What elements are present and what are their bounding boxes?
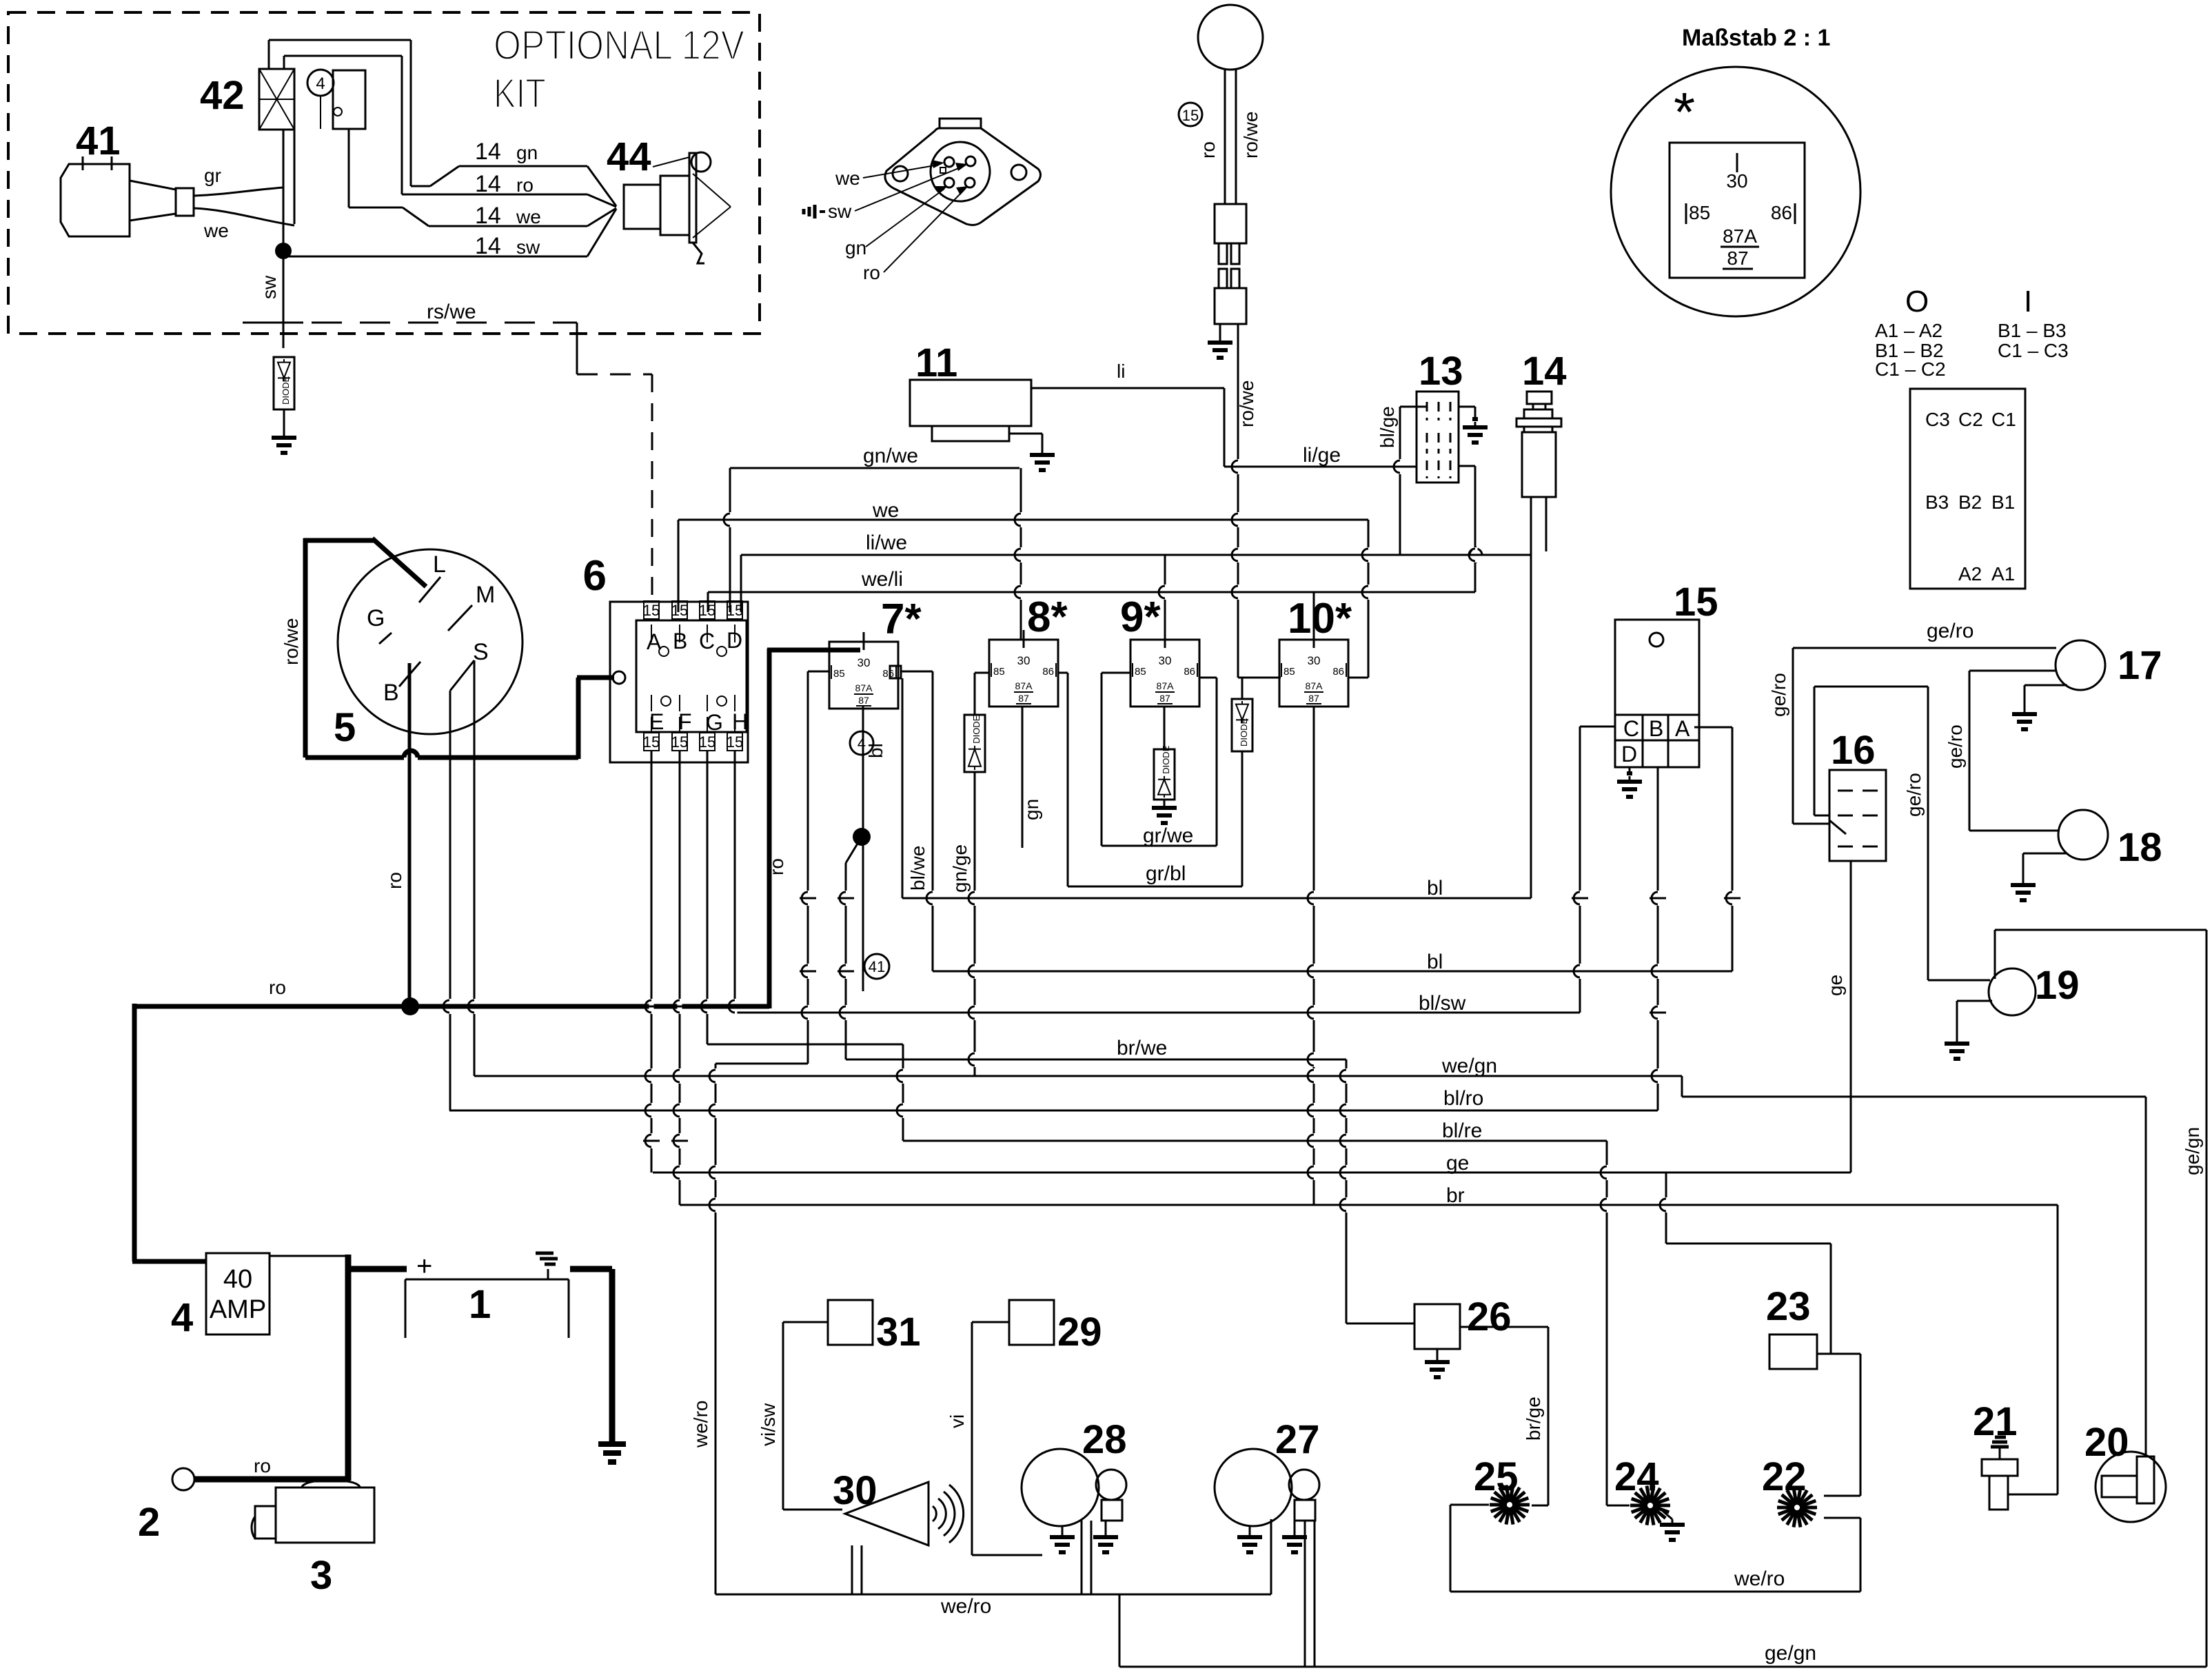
component 12 lever [1198, 5, 1263, 70]
ground below diode [283, 431, 285, 438]
svg-text:15: 15 [643, 602, 660, 619]
wires from horn down [851, 1545, 853, 1594]
svg-text:17: 17 [2118, 643, 2162, 688]
svg-text:22: 22 [1762, 1454, 1807, 1499]
circle 41 marker [864, 954, 889, 979]
pin 15 bottom [644, 733, 659, 751]
svg-text:br/ge: br/ge [1523, 1397, 1544, 1441]
svg-text:30: 30 [1159, 654, 1172, 667]
wire gr from 41 [194, 187, 283, 196]
wire bl/ro up to 15 B [1657, 767, 1659, 1110]
svg-text:85: 85 [1689, 202, 1710, 223]
svg-text:we: we [835, 167, 860, 189]
svg-text:86: 86 [1771, 202, 1792, 223]
svg-text:li/ge: li/ge [1303, 444, 1341, 467]
flasher unit 15 box [1615, 620, 1699, 767]
svg-text:sw: sw [258, 275, 280, 299]
headlight 27 [1215, 1449, 1292, 1526]
fuse 4 40 AMP [206, 1253, 270, 1334]
svg-text:C: C [699, 629, 715, 653]
svg-text:DIODE: DIODE [971, 715, 982, 744]
svg-text:ro: ro [1197, 141, 1219, 159]
svg-text:87A: 87A [1157, 680, 1175, 691]
svg-text:87: 87 [1727, 247, 1748, 269]
svg-text:B2: B2 [1958, 491, 1982, 513]
svg-text:5: 5 [334, 705, 356, 750]
svg-text:bl: bl [1427, 877, 1443, 900]
relay 9 pin87 diode to ground [1164, 707, 1166, 749]
svg-text:A1: A1 [1991, 563, 2015, 585]
svg-text:bl/ge: bl/ge [1377, 406, 1398, 448]
svg-text:42: 42 [200, 73, 245, 118]
lamp symbol 25 [1512, 1503, 1530, 1507]
diode right of relay 9 [1232, 699, 1252, 751]
wires of 27 down [1270, 1519, 1272, 1594]
svg-text:86: 86 [1332, 666, 1344, 678]
dashed border of OPTIONAL 12V KIT box [8, 12, 760, 334]
relay 7 pin86 wire bl/we [901, 671, 933, 673]
svg-text:25: 25 [1474, 1454, 1519, 1499]
svg-text:ro: ro [254, 1455, 271, 1476]
lamp symbol 22 [1800, 1506, 1817, 1510]
svg-text:br/we: br/we [1117, 1037, 1167, 1059]
svg-text:15: 15 [643, 733, 660, 751]
svg-text:85: 85 [1135, 666, 1146, 678]
svg-text:L: L [433, 551, 446, 578]
wire 22 to we/ro [1824, 1517, 1860, 1519]
svg-text:10*: 10* [1288, 595, 1352, 642]
thick wire fuse to battery plus [270, 1255, 348, 1257]
svg-text:DIODE: DIODE [1239, 718, 1249, 747]
pin 15 top [672, 601, 687, 619]
svg-text:ge/ro: ge/ro [1768, 673, 1789, 717]
svg-text:vi/sw: vi/sw [758, 1403, 779, 1446]
wire box 13 upper-left down to li/we [1399, 407, 1401, 556]
wire li [1031, 387, 1224, 389]
headlight 28 [1022, 1449, 1099, 1526]
svg-text:7*: 7* [881, 596, 922, 643]
pin 15 bottom [672, 733, 687, 751]
svg-text:ge/ro: ge/ro [1903, 773, 1925, 817]
svg-text:B: B [383, 680, 399, 706]
wire we/gn extension down to 20 [2145, 1097, 2147, 1456]
svg-text:86: 86 [1042, 666, 1054, 678]
component 5 ignition switch circle [338, 549, 522, 734]
svg-text:26: 26 [1467, 1295, 1512, 1339]
wire S of 5 down [474, 660, 476, 1076]
svg-text:87A: 87A [1723, 225, 1757, 247]
svg-text:28: 28 [1082, 1417, 1127, 1462]
svg-text:15: 15 [671, 602, 688, 619]
contacts of 5 [419, 577, 440, 602]
svg-text:30: 30 [833, 1468, 877, 1513]
ground of 15 [1629, 767, 1631, 773]
relay 8 pin86 wire gr/bl [1058, 672, 1068, 674]
connector 13 [1417, 392, 1459, 483]
connector block 6 inner [636, 620, 747, 732]
svg-text:24: 24 [1614, 1454, 1659, 1499]
svg-text:KIT: KIT [494, 70, 546, 116]
pin map box [1910, 389, 2025, 589]
svg-text:D: D [727, 628, 742, 653]
svg-text:ge: ge [1825, 975, 1846, 996]
svg-text:87: 87 [858, 695, 869, 706]
svg-text:+: + [416, 1251, 432, 1281]
svg-text:A: A [1675, 716, 1690, 741]
pin 15 bottom [727, 733, 742, 751]
svg-text:15: 15 [671, 733, 688, 751]
svg-text:gn/we: gn/we [863, 445, 918, 467]
connector block 6 outer [610, 602, 748, 762]
svg-text:14: 14 [475, 139, 501, 165]
svg-text:gn: gn [516, 142, 538, 163]
wire from 42 top to harness ro [283, 56, 285, 69]
svg-text:30: 30 [1017, 654, 1031, 667]
wire vi/sw from 31 to horn [783, 1321, 828, 1323]
svg-text:B: B [673, 629, 687, 653]
svg-text:85: 85 [993, 666, 1005, 678]
svg-text:4: 4 [171, 1295, 193, 1340]
svg-text:G: G [706, 710, 723, 735]
svg-text:23: 23 [1766, 1284, 1811, 1329]
svg-text:15: 15 [699, 733, 716, 751]
svg-text:87A: 87A [855, 682, 873, 693]
svg-text:21: 21 [1973, 1399, 2018, 1444]
svg-text:bl: bl [1427, 951, 1443, 973]
svg-text:M: M [476, 582, 495, 608]
svg-text:gr: gr [204, 165, 221, 186]
relay 9 [1130, 640, 1199, 707]
wire connector6 pin E down to ge [651, 751, 653, 1172]
wire from 42 top to harness gn [268, 40, 270, 69]
wire 42 right to 43 area [294, 130, 296, 224]
svg-text:we/gn: we/gn [1441, 1055, 1497, 1077]
svg-text:ro: ro [384, 872, 405, 889]
thick wire into 5 [303, 538, 308, 758]
svg-text:bl: bl [865, 743, 886, 758]
ground of 11 [1009, 433, 1042, 435]
ground of 17 [2025, 684, 2067, 687]
svg-text:ge/gn: ge/gn [1765, 1642, 1816, 1665]
wire 25 to we/ro [1450, 1504, 1489, 1506]
diode below optional kit [274, 357, 294, 409]
svg-text:B3: B3 [1925, 491, 1949, 513]
svg-text:87: 87 [1308, 693, 1319, 704]
lamp 18 [2058, 810, 2108, 860]
relay 8 pin85 wire with diode [975, 672, 989, 674]
relay 7 pin86 square [890, 666, 901, 678]
thick wire ro battery to relay 7 [134, 1004, 769, 1009]
starter motor 3 [276, 1488, 374, 1543]
wire we from 41 [194, 208, 294, 225]
thick wire to fuse [132, 1259, 206, 1264]
svg-text:gr/we: gr/we [1143, 824, 1193, 847]
component 11 control unit [910, 380, 1031, 426]
pin 15 bottom [700, 733, 715, 751]
wires of 28 down [1081, 1519, 1083, 1594]
svg-text:4: 4 [316, 74, 325, 93]
junction dot ro [401, 997, 419, 1015]
ground of 19 [1957, 1000, 1992, 1002]
svg-text:gn: gn [1021, 799, 1042, 820]
wire M of 5 down [449, 691, 451, 1110]
wire bl second up to 15 A [1694, 727, 1732, 729]
svg-text:C1: C1 [1991, 409, 2016, 430]
svg-text:we: we [516, 206, 541, 227]
svg-text:A2: A2 [1958, 563, 1982, 585]
grounds of 27 [1249, 1526, 1251, 1533]
svg-text:29: 29 [1057, 1310, 1102, 1354]
path ge branch to 23 and 22 [1665, 1172, 1667, 1243]
svg-text:87: 87 [1159, 693, 1170, 704]
wire bl/re to 24 [1606, 1141, 1608, 1505]
bulb of 27 [1289, 1470, 1319, 1500]
wire br/ge 26 to 25 [1460, 1326, 1548, 1328]
svg-text:DIODE: DIODE [1161, 745, 1171, 774]
pin 15 top [644, 601, 659, 619]
relay 7 pin86 lower wire to bl [902, 678, 904, 898]
ground of 13 [1459, 406, 1475, 408]
dashed vertical rs/we to connector 6 pin A [651, 374, 653, 603]
svg-text:30: 30 [1726, 170, 1747, 192]
svg-text:B1: B1 [1991, 491, 2015, 513]
wire connector6 pin H down to bl/sw [734, 751, 736, 1013]
svg-text:15: 15 [727, 733, 743, 751]
svg-text:ro/we: ro/we [1236, 380, 1257, 427]
relay 10 [1279, 640, 1348, 707]
svg-text:sw: sw [828, 201, 852, 222]
svg-text:B1 – B3: B1 – B3 [1998, 320, 2067, 341]
svg-text:9*: 9* [1120, 593, 1161, 641]
thick wire battery minus to ground [570, 1266, 612, 1272]
svg-text:19: 19 [2035, 963, 2080, 1008]
svg-text:E: E [649, 709, 664, 734]
svg-text:3: 3 [310, 1553, 332, 1598]
vertical sw wire below 42 [283, 130, 285, 348]
component 14 sensor [1527, 392, 1552, 404]
pin stubs [679, 625, 680, 642]
connector pair of 12 [1215, 204, 1246, 243]
svg-text:bl/re: bl/re [1442, 1119, 1482, 1142]
svg-text:20: 20 [2084, 1420, 2129, 1465]
component 26 box [1414, 1304, 1460, 1349]
relay 10 pin30 wire [1313, 592, 1315, 640]
svg-text:C1 – C2: C1 – C2 [1875, 358, 1946, 380]
wire from 14 down to bus bl [1530, 551, 1532, 898]
svg-text:ge/ro: ge/ro [1927, 620, 1973, 642]
wire connector6 pin G down to bl/re [707, 751, 709, 1044]
svg-text:15: 15 [1674, 580, 1718, 625]
pin stubs [707, 625, 708, 642]
ground of 24 [1663, 1511, 1672, 1519]
svg-text:gr/bl: gr/bl [1146, 862, 1186, 885]
svg-text:we/ro: we/ro [690, 1401, 711, 1448]
wire ge/ro from 16 to 19 [1814, 815, 1829, 817]
wire ro/we down from 12 [1237, 324, 1239, 678]
svg-text:ro: ro [269, 977, 286, 998]
svg-text:we/ro: we/ro [1734, 1567, 1785, 1590]
wire br/we to box 26 [1346, 1059, 1348, 1323]
svg-text:41: 41 [76, 119, 121, 163]
wire ge from 16 down [1850, 861, 1852, 1172]
svg-text:F: F [678, 709, 692, 734]
connector 2 [172, 1468, 194, 1490]
svg-text:87A: 87A [1015, 680, 1033, 691]
wire 17 to 18 ge/ro [1969, 670, 2056, 672]
relay 7 pin87 wire bl [862, 707, 864, 991]
connector plate with 4 pins [885, 128, 1041, 225]
svg-text:ge/ro: ge/ro [1945, 724, 1966, 769]
component 44 beacon lamp [624, 185, 660, 229]
svg-text:rs/we: rs/we [427, 301, 476, 323]
wire bl/sw up to 15 C [1579, 727, 1581, 1013]
svg-text:OPTIONAL 12V: OPTIONAL 12V [494, 22, 744, 68]
svg-text:li: li [1117, 361, 1125, 382]
svg-text:ro: ro [516, 174, 534, 196]
svg-text:11: 11 [915, 341, 957, 385]
relay 7 pin85 wire [808, 671, 829, 673]
svg-text:*: * [1674, 81, 1695, 143]
svg-text:C3: C3 [1925, 409, 1950, 430]
svg-text:30: 30 [1308, 654, 1321, 667]
component 31 switch box [828, 1300, 873, 1345]
lamp 17 [2056, 640, 2105, 690]
svg-text:15: 15 [1182, 107, 1199, 124]
component 41 ignition unit [61, 164, 130, 236]
svg-text:ro/we: ro/we [281, 618, 302, 665]
junction dot on bl wire [853, 828, 871, 846]
component 23 box [1769, 1334, 1817, 1369]
svg-text:87A: 87A [1306, 680, 1323, 691]
relay 9 pin86 wire [1199, 677, 1217, 679]
connector plate tab [940, 119, 981, 128]
svg-text:ge: ge [1446, 1152, 1469, 1175]
gauge 20 [2096, 1452, 2166, 1522]
svg-text:40: 40 [223, 1265, 252, 1294]
svg-text:vi: vi [946, 1414, 968, 1428]
component 43 relay box [333, 70, 365, 129]
svg-text:18: 18 [2118, 825, 2162, 870]
svg-text:1: 1 [469, 1282, 491, 1327]
junction dot sw [275, 243, 292, 259]
svg-text:bl/we: bl/we [907, 846, 929, 891]
component 29 switch box [1009, 1300, 1054, 1345]
wire connector6 pin F down to br [679, 751, 681, 1205]
svg-text:2: 2 [138, 1500, 160, 1545]
wire we down to relay 10 pin 86 [1368, 520, 1370, 678]
svg-text:6: 6 [583, 552, 607, 600]
wire we/li up to connector 13 [1474, 466, 1477, 592]
svg-text:C2: C2 [1958, 409, 1983, 430]
ground of 26 [1437, 1349, 1439, 1357]
wire B of 5 down ro [408, 663, 412, 1006]
svg-text:gn/ge: gn/ge [949, 844, 971, 893]
svg-text:ro/we: ro/we [1240, 112, 1261, 159]
svg-text:14: 14 [475, 171, 501, 197]
svg-text:14: 14 [1522, 349, 1567, 394]
svg-text:DIODE: DIODE [281, 376, 291, 405]
pin stubs [734, 625, 735, 642]
svg-text:we/li: we/li [861, 568, 903, 591]
svg-text:16: 16 [1831, 728, 1876, 773]
pins of plate [944, 157, 954, 167]
horn 30 [845, 1482, 929, 1545]
svg-text:27: 27 [1275, 1417, 1320, 1462]
svg-text:we/ro: we/ro [940, 1595, 991, 1618]
svg-text:8*: 8* [1027, 593, 1068, 641]
svg-text:we: we [872, 499, 899, 522]
relay 7 [829, 642, 898, 709]
svg-text:sw: sw [516, 236, 540, 258]
wire ge/ro from 16 to 17 [1793, 823, 1829, 825]
svg-text:13: 13 [1419, 349, 1463, 394]
svg-text:O: O [1905, 285, 1929, 318]
relay 10 pin86 wire [1348, 677, 1368, 679]
thick wire ro to starter [194, 1476, 349, 1483]
svg-text:AMP: AMP [210, 1295, 266, 1324]
svg-text:87: 87 [1018, 693, 1029, 704]
relay 10 pin87 wire [1313, 707, 1315, 1205]
relay 8 [989, 640, 1058, 707]
component 21 sensor [1995, 1436, 2006, 1439]
svg-text:ro: ro [863, 262, 880, 283]
wire frame around 19 to right edge ge/gn [1995, 929, 2206, 931]
battery minus terminal [536, 1252, 554, 1255]
svg-text:li/we: li/we [866, 531, 907, 554]
svg-text:86: 86 [1184, 666, 1195, 678]
circle 15 marker [1179, 103, 1202, 126]
thick wire 5 to connector 6 [305, 755, 404, 760]
svg-text:85: 85 [833, 668, 845, 680]
svg-text:30: 30 [858, 656, 871, 669]
svg-text:Maßstab 2 : 1: Maßstab 2 : 1 [1682, 25, 1830, 51]
pin stubs [651, 625, 652, 642]
svg-text:I: I [2024, 285, 2032, 318]
svg-text:31: 31 [876, 1310, 921, 1354]
svg-text:ro: ro [766, 858, 787, 875]
relay 9 pin85 wire [1102, 672, 1130, 674]
wire we/ro down from relay 7 area [715, 1064, 717, 1594]
pin 15 top [727, 601, 742, 619]
lamp 19 [1989, 968, 2036, 1015]
svg-text:br: br [1446, 1184, 1465, 1207]
wire 23 to 22 [1817, 1353, 1860, 1355]
svg-text:G: G [367, 605, 385, 631]
relay 10 pin85 wire ro/we [1238, 677, 1281, 679]
wire vi from 29 [972, 1321, 1009, 1323]
circle 4 marker [307, 70, 334, 96]
pin 15 top [700, 601, 715, 619]
lamp symbol 24 [1653, 1504, 1670, 1507]
svg-text:44: 44 [607, 134, 651, 179]
svg-text:41: 41 [869, 958, 885, 975]
svg-text:14: 14 [475, 203, 501, 229]
svg-text:85: 85 [1283, 666, 1295, 678]
component 42 rectifier [259, 69, 294, 130]
svg-text:bl/sw: bl/sw [1419, 992, 1466, 1015]
wire br to 21 [2057, 1205, 2059, 1494]
svg-text:B: B [1649, 716, 1663, 741]
ground stub of 12 [1219, 324, 1221, 336]
svg-text:we: we [203, 220, 229, 241]
wire from junction to br/we [845, 863, 847, 1059]
svg-text:14: 14 [475, 233, 501, 259]
svg-text:D: D [1621, 742, 1637, 767]
small circles in 6 [659, 647, 669, 656]
svg-text:C: C [1623, 716, 1639, 741]
bolt holes [893, 166, 908, 181]
svg-text:ge/gn: ge/gn [2182, 1127, 2203, 1175]
